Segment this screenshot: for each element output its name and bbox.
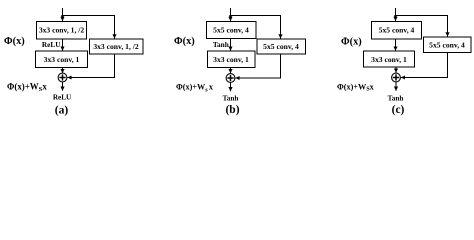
wire output c	[395, 82, 397, 91]
svg-text:(b): (b)	[225, 104, 239, 116]
wire skip horizontal b	[231, 16, 281, 39]
svg-text:ReLU: ReLU	[53, 94, 72, 102]
adder b	[226, 74, 235, 83]
wire input vertical b	[230, 8, 232, 21]
wire skip horizontal a	[63, 16, 115, 39]
wire input vertical c	[395, 8, 397, 21]
svg-text:Φ(x): Φ(x)	[4, 36, 25, 47]
svg-text:Φ(x): Φ(x)	[341, 36, 362, 47]
wire output a	[62, 82, 64, 91]
wire skip to sum b	[235, 54, 280, 78]
svg-text:(c): (c)	[392, 104, 405, 116]
svg-text:3x3 conv, 1: 3x3 conv, 1	[213, 55, 249, 64]
box conv2 c	[364, 51, 415, 67]
node junction a	[61, 15, 64, 18]
wire conv2 to sum a	[62, 68, 64, 74]
wire conv1 to conv2 a	[62, 39, 64, 51]
wire skip to sum c	[401, 53, 448, 78]
adder a	[58, 73, 67, 82]
box conv1 b	[207, 22, 257, 39]
wire conv1 to conv2 c	[395, 39, 397, 51]
box conv1 c	[372, 22, 422, 40]
box conv2 a	[36, 51, 88, 68]
svg-text:Φ(x): Φ(x)	[174, 36, 195, 47]
svg-text:Tanh: Tanh	[213, 40, 229, 49]
diagram b	[174, 8, 306, 116]
svg-text:3x3 conv, 1: 3x3 conv, 1	[44, 55, 80, 64]
svg-text:Tanh: Tanh	[223, 95, 239, 103]
svg-text:ReLU: ReLU	[42, 40, 61, 49]
wire conv1 to conv2 b	[230, 39, 232, 51]
wire conv2 to sum b	[230, 68, 232, 74]
diagram a	[4, 8, 143, 117]
box skip conv b	[257, 39, 306, 54]
wire skip horizontal c	[396, 16, 448, 37]
svg-text:5x5 conv, 4: 5x5 conv, 4	[263, 42, 299, 51]
wire output b	[230, 83, 232, 92]
svg-text:Tanh: Tanh	[388, 94, 404, 102]
svg-text:3x3 conv, 1: 3x3 conv, 1	[371, 55, 407, 64]
svg-text:Φ(x)+Wsx: Φ(x)+Wsx	[176, 82, 214, 93]
svg-text:Φ(x)+WSx: Φ(x)+WSx	[7, 82, 47, 93]
node junction c	[394, 15, 397, 18]
svg-text:3x3 conv, 1, /2: 3x3 conv, 1, /2	[39, 25, 85, 34]
svg-text:(a): (a)	[55, 105, 69, 117]
diagram c	[337, 8, 471, 116]
box skip conv c	[424, 37, 472, 53]
svg-text:Φ(x)+WSx: Φ(x)+WSx	[337, 82, 375, 92]
wire conv2 to sum c	[395, 67, 397, 73]
box skip conv a	[90, 39, 144, 54]
adder c	[392, 73, 401, 82]
svg-text:5x5 conv, 4: 5x5 conv, 4	[429, 40, 465, 49]
svg-text:5x5 conv, 4: 5x5 conv, 4	[379, 26, 415, 35]
svg-text:3x3 conv, 1, /2: 3x3 conv, 1, /2	[93, 42, 139, 51]
wire skip to sum a	[67, 54, 114, 78]
wire input vertical a	[62, 8, 64, 21]
box conv1 a	[37, 22, 87, 40]
node junction b	[229, 15, 232, 18]
svg-text:5x5 conv, 4: 5x5 conv, 4	[213, 25, 249, 34]
box conv2 b	[208, 51, 256, 68]
